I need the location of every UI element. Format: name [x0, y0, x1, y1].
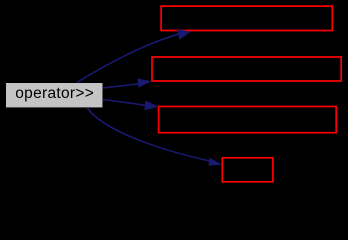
node box1 (top, red border) [161, 6, 332, 30]
node box4 (small, red border) [222, 158, 273, 182]
node operator>> (current node, grey filled) [6, 83, 103, 107]
node box2 (red border) [152, 57, 341, 81]
edge operator>> to box2 (arrow) [103, 78, 151, 88]
edge operator>> to box4 (curved arrow) [87, 108, 222, 166]
edge operator>> to box3 (arrow) [103, 100, 158, 111]
edge operator>> to box1 (curved arrow) [77, 29, 191, 82]
svg-text:operator>>: operator>> [15, 85, 94, 102]
node box3 (red border) [159, 107, 337, 133]
